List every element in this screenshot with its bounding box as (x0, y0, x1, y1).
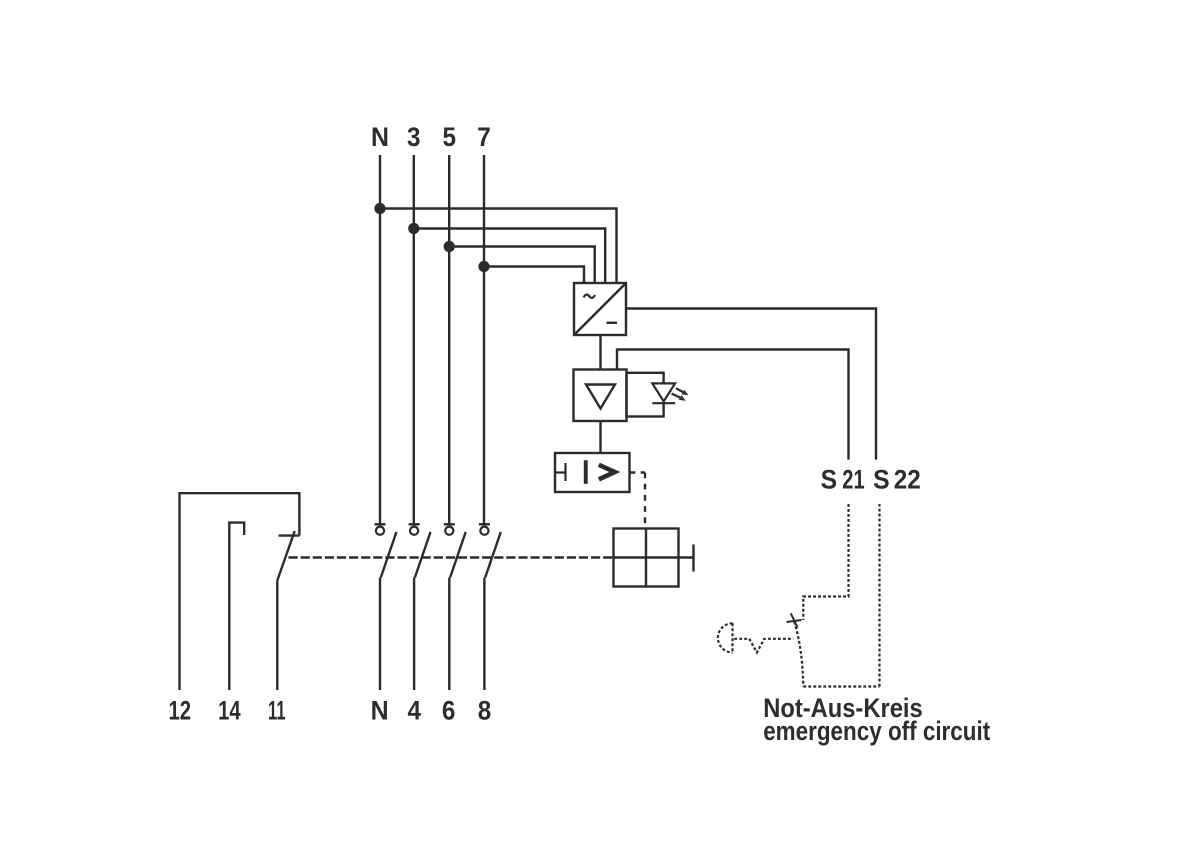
svg-text:4: 4 (408, 696, 422, 726)
svg-text:N: N (371, 122, 389, 152)
svg-text:S: S (873, 465, 890, 495)
LED emission arrows (672, 388, 689, 401)
switch pole 8 fixed contact (480, 527, 488, 535)
wire rectifier to S22 (626, 309, 876, 460)
svg-text:7: 7 (477, 122, 491, 152)
svg-text:14: 14 (218, 696, 241, 726)
switch pole 8 lower wire (483, 578, 485, 691)
wire N vertical (379, 155, 381, 524)
switch pole N lower wire (379, 578, 381, 691)
LED indicator D1 (627, 373, 676, 417)
switch pole 6 fixed contact (445, 527, 453, 535)
wire 5 to rectifier (449, 247, 595, 284)
svg-text:6: 6 (442, 696, 456, 726)
switch pole N arm (381, 532, 397, 578)
auxiliary contact 12 fixed tick (279, 534, 300, 536)
switch pole 4 fixed contact (410, 527, 418, 535)
switch pole N fixed contact (376, 527, 384, 535)
svg-text:N: N (371, 696, 389, 726)
emergency stop actuator arm (794, 622, 803, 687)
switch pole 6 lower wire (448, 578, 450, 691)
emergency stop contact cross (787, 613, 802, 627)
junction dot 7 (478, 261, 489, 272)
svg-text:8: 8 (478, 696, 492, 726)
svg-text:12: 12 (169, 696, 192, 726)
emergency stop return loop to S22 (803, 504, 879, 687)
svg-text:21: 21 (842, 465, 864, 495)
switch pole 4 arm (415, 532, 431, 578)
junction dot 5 (444, 241, 455, 252)
junction dot 3 (408, 223, 419, 234)
wire 7 to rectifier (484, 267, 584, 284)
auxiliary contact arm (277, 531, 294, 581)
auxiliary contact 12 wire (180, 493, 300, 690)
switch pole 4 lower wire (413, 578, 415, 691)
wire rectifier to voltage monitor (599, 335, 601, 370)
svg-text:11: 11 (268, 696, 286, 726)
switch pole N terminal bar (375, 523, 386, 525)
wire voltage monitor to current relay (599, 421, 601, 453)
switch pole 4 terminal bar (409, 523, 420, 525)
rectifier U1 (574, 283, 626, 335)
voltage monitor U2 (574, 370, 627, 422)
actuator linkage with spring (734, 639, 793, 653)
switch pole 8 arm (485, 532, 501, 578)
switch pole 8 terminal bar (479, 523, 490, 525)
svg-text:5: 5 (442, 122, 456, 152)
mechanical linkage dashed line (289, 556, 614, 558)
svg-text:emergency off circuit: emergency off circuit (763, 716, 990, 746)
terminal label S 22 (873, 465, 921, 495)
wire 3 to rectifier (414, 229, 605, 284)
current relay U3 I> (555, 453, 630, 492)
junction dot N (374, 203, 385, 214)
wire 7 vertical (483, 155, 485, 524)
svg-text:22: 22 (894, 465, 921, 495)
auxiliary contact 14 wire (229, 523, 244, 690)
drive and test element box (614, 529, 694, 587)
mushroom head actuator (718, 623, 733, 652)
emergency stop linkage from S21 (803, 504, 848, 620)
terminal label S 21 (821, 465, 865, 495)
wire 3 vertical (413, 155, 415, 524)
svg-text:S: S (821, 465, 838, 495)
auxiliary contact 11 common wire (276, 581, 278, 691)
wire voltage monitor to S21 (617, 350, 849, 460)
svg-text:3: 3 (407, 122, 421, 152)
wire 5 vertical (448, 155, 450, 524)
dashed link current relay to drive (630, 473, 646, 529)
wire N to rectifier (380, 209, 617, 284)
switch pole 6 terminal bar (444, 523, 455, 525)
switch pole 6 arm (450, 532, 466, 578)
